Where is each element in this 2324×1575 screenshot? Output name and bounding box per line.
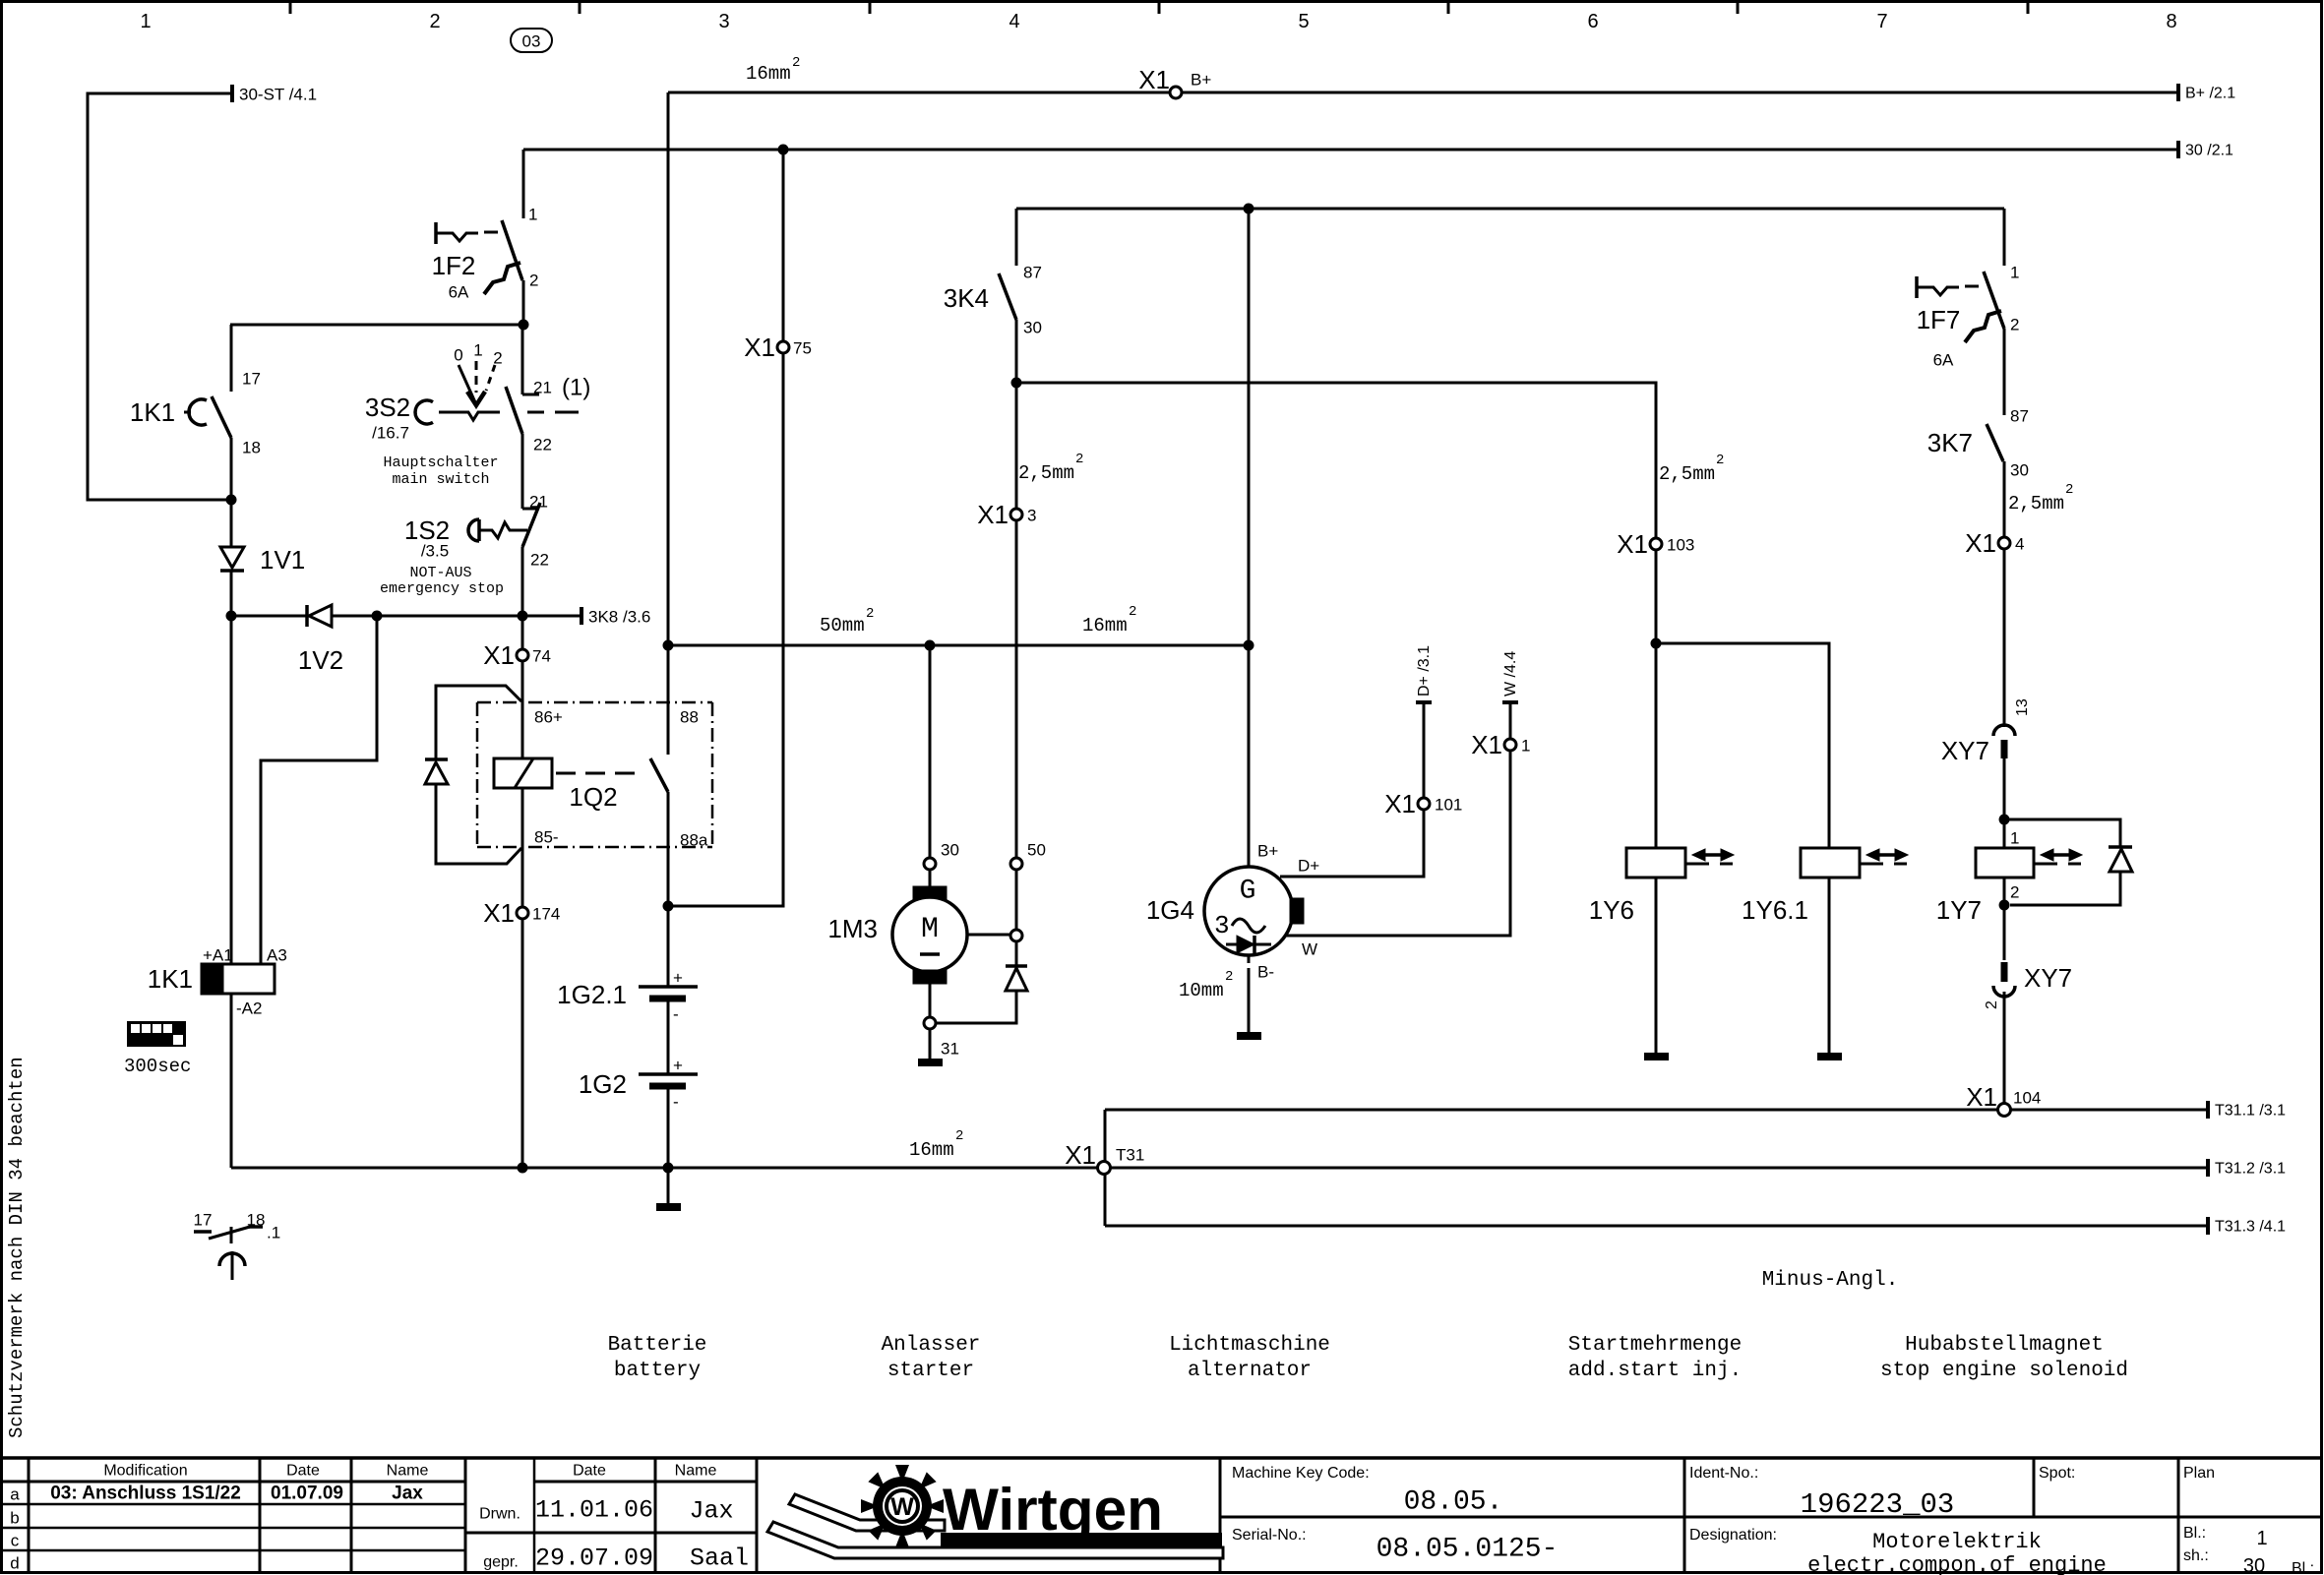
- svg-text:1: 1: [2010, 264, 2019, 282]
- svg-text:+: +: [673, 969, 683, 988]
- svg-text:18: 18: [247, 1211, 266, 1230]
- symbol actuator arrows (1Y7): [2035, 849, 2082, 864]
- wire battery column: [667, 906, 670, 987]
- connector X1:101: [1384, 789, 1462, 818]
- svg-text:XY7: XY7: [1941, 736, 1989, 765]
- net B+ /2.1: [2176, 84, 2180, 101]
- connector X1:74: [483, 640, 551, 670]
- svg-text:+: +: [673, 1057, 683, 1075]
- contact 1Q2 (88-88a): [650, 645, 668, 906]
- svg-text:08.05.: 08.05.: [1404, 1487, 1503, 1518]
- svg-text:196223_03: 196223_03: [1801, 1488, 1955, 1521]
- svg-text:16mm: 16mm: [1082, 615, 1128, 636]
- junction 50mm2 rail / starter 30 column: [925, 640, 936, 651]
- svg-text:Name: Name: [675, 1463, 717, 1480]
- svg-text:XY7: XY7: [2024, 963, 2072, 993]
- svg-text:2: 2: [1075, 452, 1083, 467]
- svg-text:1K1: 1K1: [148, 964, 193, 994]
- wire B- to ground: [1248, 955, 1251, 963]
- svg-text:21: 21: [533, 379, 552, 397]
- svg-text:alternator: alternator: [1188, 1360, 1312, 1382]
- svg-text:30 /2.1: 30 /2.1: [2185, 143, 2233, 159]
- battery 1G2: [639, 1074, 698, 1168]
- svg-text:-: -: [673, 1005, 679, 1024]
- svg-text:2: 2: [493, 349, 502, 368]
- wire starter 50 column: [1015, 383, 1018, 858]
- svg-text:Machine Key Code:: Machine Key Code:: [1232, 1465, 1370, 1482]
- terminal solenoid (1M3 side): [1010, 930, 1022, 941]
- svg-text:Hubabstellmagnet: Hubabstellmagnet: [1905, 1334, 2104, 1357]
- diode 1V1: [220, 500, 244, 616]
- fuse 1F7: [1917, 209, 2004, 415]
- svg-text:b: b: [10, 1509, 19, 1528]
- junction X1:174 column / minus bus: [518, 1163, 528, 1174]
- terminal circle X1:T31: [1098, 1162, 1111, 1175]
- net T31.3 /4.1: [2206, 1217, 2210, 1235]
- junction 3K4 output: [1011, 378, 1022, 389]
- svg-text:G: G: [1240, 877, 1256, 907]
- svg-text:30: 30: [2010, 461, 2029, 480]
- svg-text:101: 101: [1435, 796, 1462, 815]
- wire X1:74 drop: [521, 616, 524, 758]
- svg-text:d: d: [10, 1554, 19, 1573]
- wire B+ column to battery: [667, 92, 670, 645]
- net D+ /3.1: [1416, 700, 1432, 704]
- svg-text:B+: B+: [1257, 842, 1278, 861]
- svg-text:1: 1: [140, 11, 151, 32]
- ground battery minus: [667, 1168, 670, 1203]
- svg-text:2: 2: [2065, 482, 2073, 498]
- contact 1K1 (NO, 17-18): [184, 325, 231, 500]
- svg-text:Jax: Jax: [689, 1497, 733, 1526]
- connector X1:75: [744, 333, 812, 362]
- svg-text:50mm: 50mm: [820, 615, 865, 636]
- solenoid 1Y7: [1976, 848, 2034, 960]
- svg-text:2: 2: [2010, 316, 2019, 334]
- svg-text:1M3: 1M3: [827, 914, 878, 943]
- wire node to 1S2 bottom: [377, 615, 581, 618]
- connector X1:3: [977, 500, 1036, 529]
- diode 1V2: [231, 605, 377, 627]
- junction 1K1/30-ST: [226, 495, 237, 506]
- svg-text:sh.:: sh.:: [2183, 1547, 2209, 1564]
- svg-text:2,5mm: 2,5mm: [2008, 493, 2064, 515]
- svg-text:NOT-AUS: NOT-AUS: [409, 565, 471, 581]
- connector X1:T31: [1065, 1140, 1144, 1170]
- svg-text:emergency stop: emergency stop: [380, 580, 504, 597]
- logo Wirtgen gear emblem: [861, 1465, 944, 1547]
- svg-text:88a: 88a: [680, 831, 708, 850]
- svg-text:Serial-No.:: Serial-No.:: [1232, 1527, 1307, 1544]
- svg-text:2: 2: [792, 55, 800, 71]
- svg-text:1V1: 1V1: [260, 545, 305, 575]
- svg-text:3: 3: [718, 11, 729, 32]
- svg-text:8: 8: [2166, 11, 2176, 32]
- wire XY7 bottom to X1:104: [2003, 992, 2006, 1104]
- svg-text:1V2: 1V2: [298, 645, 343, 675]
- junction 1Y7 pin2 / diode loop: [1999, 900, 2010, 911]
- wire B+ bus: [668, 91, 2178, 94]
- svg-text:13: 13: [2014, 698, 2031, 716]
- symbol rectifier diode: [1226, 936, 1271, 953]
- svg-text:1: 1: [2010, 829, 2019, 848]
- junction battery minus / minus bus: [663, 1163, 674, 1174]
- svg-text:Date: Date: [573, 1463, 606, 1480]
- svg-text:T31.3 /4.1: T31.3 /4.1: [2215, 1219, 2286, 1236]
- link 1Q2 coil to contact (dashed): [556, 772, 642, 775]
- svg-text:T31.2 /3.1: T31.2 /3.1: [2215, 1161, 2286, 1178]
- svg-text:1F2: 1F2: [432, 251, 476, 280]
- svg-text:Batterie: Batterie: [608, 1334, 707, 1357]
- junction on 30 bus at X1:75 column: [778, 145, 789, 155]
- svg-text:74: 74: [532, 647, 551, 666]
- boundary 1Q2 (dash-dot): [477, 702, 712, 847]
- wire D+ lead: [1280, 702, 1424, 877]
- net 30 /2.1: [2176, 141, 2180, 158]
- junction 1V2 / 1K1 A3 branch: [372, 611, 383, 622]
- diode (1M3 suppressor): [936, 941, 1027, 1023]
- svg-text:Date: Date: [286, 1463, 320, 1480]
- svg-text:1Y7: 1Y7: [1936, 895, 1982, 925]
- terminal 50 (1M3): [1010, 858, 1022, 870]
- svg-text:Saal: Saal: [690, 1545, 749, 1573]
- svg-text:17: 17: [194, 1211, 213, 1230]
- net 30-ST /4.1: [230, 85, 234, 102]
- connector X1:4: [1965, 528, 2024, 558]
- net T31.1 /3.1: [2206, 1101, 2210, 1119]
- connector X1:174: [483, 898, 560, 928]
- switch 1S2 emergency stop: [468, 503, 540, 616]
- wire alternator B+ column: [1248, 209, 1251, 867]
- svg-text:2: 2: [1716, 453, 1724, 468]
- logo Wirtgen swoosh: [767, 1494, 1223, 1558]
- svg-text:W /4.4: W /4.4: [1502, 651, 1519, 697]
- svg-text:X1: X1: [1471, 730, 1502, 759]
- title block grid: [2, 1458, 2322, 1573]
- svg-text:85-: 85-: [534, 828, 559, 847]
- svg-text:4: 4: [1009, 11, 1019, 32]
- svg-text:Anlasser: Anlasser: [882, 1334, 981, 1357]
- svg-text:c: c: [11, 1532, 20, 1550]
- logo Wirtgen underline: [941, 1533, 1222, 1547]
- relay 1Q2 battery switch housing: [436, 686, 521, 864]
- svg-text:16mm: 16mm: [909, 1139, 954, 1161]
- diode (1Y7 suppressor) loop: [2004, 819, 2132, 905]
- svg-text:6A: 6A: [449, 283, 469, 302]
- svg-text:11.01.06: 11.01.06: [535, 1496, 653, 1525]
- svg-text:1Y6.1: 1Y6.1: [1742, 895, 1808, 925]
- svg-text:2: 2: [429, 11, 440, 32]
- svg-text:X1: X1: [1384, 789, 1416, 818]
- svg-text:W: W: [890, 1493, 914, 1521]
- svg-text:2: 2: [955, 1128, 963, 1144]
- svg-text:2,5mm: 2,5mm: [1018, 462, 1074, 484]
- svg-text:86+: 86+: [534, 708, 563, 727]
- svg-text:08.05.0125-: 08.05.0125-: [1376, 1535, 1559, 1565]
- wire 50mm2/16mm2 rail: [668, 644, 1249, 647]
- solenoid 1Y6.1: [1801, 848, 1860, 1053]
- svg-text:1Y6: 1Y6: [1589, 895, 1634, 925]
- svg-text:Drwn.: Drwn.: [479, 1506, 520, 1523]
- contact 1K1 mirror (17-18 .1): [194, 1227, 263, 1280]
- svg-text:B-: B-: [1257, 963, 1274, 982]
- wire T31.2 line: [1110, 1167, 2208, 1170]
- wire starter 30 column: [929, 645, 932, 858]
- ground 1G4: [1237, 1032, 1261, 1040]
- wire X1:174 to minus bus: [521, 919, 524, 1168]
- battery 1G2.1: [639, 987, 698, 1074]
- wire 30-ST feeder: [88, 93, 232, 500]
- svg-text:Hauptschalter: Hauptschalter: [383, 454, 498, 471]
- svg-text:1G2.1: 1G2.1: [557, 980, 627, 1009]
- wire 1F2 output to 1K1 contact: [230, 324, 523, 327]
- svg-text:30: 30: [941, 841, 959, 860]
- svg-text:gepr.: gepr.: [483, 1554, 519, 1571]
- svg-text:X1: X1: [744, 333, 775, 362]
- wire 50 to solenoid terminal: [1015, 870, 1018, 930]
- svg-text:T31.1 /3.1: T31.1 /3.1: [2215, 1103, 2286, 1120]
- svg-text:5: 5: [1298, 11, 1309, 32]
- wire 87 rail (row 212): [1016, 208, 2004, 211]
- svg-text:stop engine solenoid: stop engine solenoid: [1880, 1360, 2128, 1382]
- svg-text:7: 7: [1876, 11, 1887, 32]
- sheet badge 03: [511, 29, 552, 52]
- wire minus bus 16mm2: [231, 1167, 1098, 1170]
- svg-text:2: 2: [1225, 969, 1233, 985]
- motor 1M3 starter: [892, 870, 967, 1017]
- net 3K8 /3.6: [580, 607, 583, 625]
- svg-text:75: 75: [793, 339, 812, 358]
- svg-text:1: 1: [2256, 1528, 2267, 1549]
- svg-text:Name: Name: [387, 1463, 429, 1480]
- svg-text:main switch: main switch: [392, 471, 489, 488]
- switch 3S2 main switch: [415, 325, 579, 509]
- svg-text:30: 30: [2243, 1555, 2265, 1575]
- svg-text:X1: X1: [483, 640, 515, 670]
- connector X1:B+: [1138, 65, 1211, 98]
- wire W lead: [1285, 702, 1510, 936]
- wire T31.1 line: [1105, 1109, 2208, 1112]
- connector X1:103: [1617, 529, 1694, 559]
- svg-text:50: 50: [1027, 841, 1046, 860]
- svg-text:B+ /2.1: B+ /2.1: [2185, 86, 2235, 102]
- wire X1:75 column: [668, 150, 783, 906]
- svg-text:W: W: [1302, 940, 1317, 959]
- svg-text:2: 2: [529, 272, 538, 290]
- connector XY7 bottom: [1993, 905, 2015, 997]
- svg-text:1: 1: [1521, 737, 1530, 756]
- svg-text:-A2: -A2: [236, 1000, 262, 1018]
- svg-text:X1: X1: [1617, 529, 1648, 559]
- svg-text:2: 2: [1984, 1000, 2000, 1009]
- svg-text:2: 2: [1129, 604, 1136, 620]
- relay contact 3K4: [999, 209, 1016, 383]
- svg-text:T31: T31: [1116, 1146, 1144, 1165]
- svg-text:Plan: Plan: [2183, 1465, 2215, 1482]
- column numbers 1-8: [140, 11, 2176, 32]
- svg-text:/3.5: /3.5: [421, 542, 449, 561]
- connector X1:104: [1966, 1082, 2041, 1117]
- junction 1Y7 pin1 / diode loop: [1999, 815, 2010, 825]
- svg-text:6A: 6A: [1933, 351, 1954, 370]
- ground 1M3: [929, 1029, 932, 1059]
- ground 1Y6.1: [1817, 1053, 1842, 1060]
- svg-text:22: 22: [530, 551, 549, 570]
- svg-text:D+: D+: [1298, 857, 1319, 876]
- svg-text:-: -: [673, 1093, 679, 1112]
- svg-text:3K7: 3K7: [1927, 428, 1973, 457]
- alternator 1G4: [1204, 867, 1304, 955]
- svg-text:3K8 /3.6: 3K8 /3.6: [588, 608, 650, 627]
- svg-text:30: 30: [1023, 319, 1042, 337]
- net T31.2 /3.1: [2206, 1159, 2210, 1177]
- svg-text:103: 103: [1667, 536, 1694, 555]
- svg-text:3S2: 3S2: [365, 393, 410, 422]
- svg-text:Spot:: Spot:: [2039, 1465, 2075, 1482]
- svg-text:Designation:: Designation:: [1689, 1527, 1777, 1544]
- junction 88a / X1:75 return: [663, 901, 674, 912]
- svg-text:03: Anschluss 1S1/22: 03: Anschluss 1S1/22: [50, 1484, 241, 1504]
- svg-text:/16.7: /16.7: [372, 424, 409, 443]
- svg-text:Minus-Angl.: Minus-Angl.: [1762, 1269, 1899, 1292]
- svg-text:X1: X1: [1965, 528, 1996, 558]
- ground 1Y6: [1644, 1053, 1669, 1060]
- svg-text:A3: A3: [267, 946, 287, 965]
- junction 1V1 bottom: [226, 611, 237, 622]
- svg-text:17: 17: [242, 370, 261, 389]
- svg-text:electr.compon.of engine: electr.compon.of engine: [1807, 1553, 2107, 1575]
- svg-text:2: 2: [2010, 883, 2019, 902]
- junction 1F2 output: [519, 320, 529, 331]
- svg-text:03: 03: [522, 32, 541, 51]
- wire XY7 to 1Y7: [2003, 758, 2006, 848]
- svg-text:300sec: 300sec: [124, 1056, 191, 1077]
- svg-text:battery: battery: [614, 1360, 701, 1382]
- wire rail to 1Y6.1: [1656, 643, 1829, 848]
- svg-text:Bl.:: Bl.:: [2292, 1560, 2314, 1575]
- wire coil 85- drop to X1:174: [521, 788, 524, 907]
- wire 30 bus: [523, 149, 2178, 151]
- svg-text:.1: .1: [267, 1224, 280, 1242]
- junction 87 rail / alternator B+ column: [1244, 204, 1254, 214]
- svg-text:3: 3: [1214, 911, 1230, 940]
- svg-text:Ident-No.:: Ident-No.:: [1689, 1465, 1758, 1482]
- svg-text:X1: X1: [1138, 65, 1170, 94]
- coil 1Q2: [494, 758, 552, 788]
- wire motor to solenoid terminal: [967, 934, 1010, 937]
- svg-text:2: 2: [866, 606, 874, 622]
- svg-text:X1: X1: [483, 898, 515, 928]
- svg-text:Bl.:: Bl.:: [2183, 1525, 2206, 1542]
- svg-text:Modification: Modification: [103, 1463, 187, 1480]
- timer setting block 300sec: [127, 1021, 186, 1047]
- symbol actuator arrows (1Y6.1): [1861, 849, 1908, 864]
- svg-text:3K4: 3K4: [944, 283, 989, 313]
- svg-text:1S2: 1S2: [404, 515, 450, 545]
- svg-text:X1: X1: [977, 500, 1009, 529]
- relay contact 3K7: [1987, 424, 2004, 537]
- svg-text:Jax: Jax: [392, 1484, 423, 1504]
- junction alternator column / 16mm2 rail: [1244, 640, 1254, 651]
- svg-text:1G2: 1G2: [579, 1069, 627, 1099]
- svg-text:B+: B+: [1191, 71, 1211, 90]
- svg-text:29.07.09: 29.07.09: [535, 1545, 653, 1573]
- svg-text:31: 31: [941, 1040, 959, 1059]
- svg-text:starter: starter: [887, 1360, 974, 1382]
- junction 1S2 bottom: [518, 611, 528, 622]
- svg-text:X1: X1: [1065, 1140, 1096, 1170]
- terminal 30 (1M3): [924, 858, 936, 870]
- svg-text:18: 18: [242, 439, 261, 457]
- svg-text:22: 22: [533, 436, 552, 454]
- svg-text:87: 87: [2010, 407, 2029, 426]
- fuse 1F2: [436, 150, 523, 325]
- svg-text:88: 88: [680, 708, 699, 727]
- svg-text:Schutzvermerk nach DIN 34 beac: Schutzvermerk nach DIN 34 beachten: [6, 1057, 28, 1438]
- svg-text:add.start inj.: add.start inj.: [1568, 1360, 1742, 1382]
- svg-text:01.07.09: 01.07.09: [271, 1484, 343, 1504]
- svg-text:a: a: [10, 1485, 20, 1504]
- svg-text:1Q2: 1Q2: [569, 782, 617, 812]
- wire T31.3 line: [1105, 1225, 2208, 1228]
- svg-text:+A1: +A1: [203, 946, 233, 965]
- svg-text:6: 6: [1587, 11, 1598, 32]
- junction 1Y6 column / 1Y6.1 rail: [1651, 638, 1662, 649]
- svg-text:1F7: 1F7: [1917, 305, 1961, 334]
- svg-text:Wirtgen: Wirtgen: [943, 1477, 1163, 1543]
- svg-text:4: 4: [2015, 535, 2024, 554]
- symbol AC wave: [1232, 919, 1265, 933]
- svg-text:2,5mm: 2,5mm: [1659, 463, 1715, 485]
- svg-text:0: 0: [454, 346, 462, 365]
- coil 1K1 (timer relay): [202, 616, 275, 1168]
- svg-text:1K1: 1K1: [130, 397, 175, 427]
- solenoid 1Y6: [1626, 848, 1685, 1053]
- svg-text:10mm: 10mm: [1179, 980, 1224, 1001]
- wire X1:4 to XY7: [2003, 549, 2006, 727]
- svg-text:1: 1: [528, 206, 537, 224]
- svg-text:21: 21: [529, 493, 548, 512]
- svg-text:16mm: 16mm: [746, 63, 791, 85]
- svg-text:D+ /3.1: D+ /3.1: [1416, 645, 1433, 697]
- svg-text:1G4: 1G4: [1146, 895, 1194, 925]
- diode (1Q2 suppressor): [425, 759, 448, 784]
- svg-text:X1: X1: [1966, 1082, 1997, 1112]
- symbol actuator arrows (1Y6): [1686, 849, 1734, 864]
- svg-text:104: 104: [2013, 1089, 2041, 1108]
- svg-text:87: 87: [1023, 264, 1042, 282]
- wire T31 riser: [1104, 1110, 1107, 1226]
- wire 3K4 output rail to 1Y6 column: [1016, 383, 1656, 848]
- connector XY7 top: [1993, 725, 2015, 758]
- svg-text:30-ST /4.1: 30-ST /4.1: [239, 86, 317, 104]
- svg-text:Motorelektrik: Motorelektrik: [1872, 1530, 2042, 1554]
- wire A3 branch: [261, 616, 377, 964]
- connector X1:1: [1471, 730, 1530, 759]
- svg-text:1: 1: [473, 341, 482, 360]
- svg-text:(1): (1): [562, 375, 590, 401]
- junction B+ column / 50mm2 rail: [663, 640, 674, 651]
- svg-text:174: 174: [532, 905, 560, 924]
- svg-text:M: M: [921, 913, 939, 946]
- net W /4.4: [1502, 700, 1518, 704]
- svg-text:Startmehrmenge: Startmehrmenge: [1568, 1334, 1742, 1357]
- svg-text:3: 3: [1027, 507, 1036, 525]
- terminal 31 (1M3): [924, 1017, 936, 1029]
- svg-text:Lichtmaschine: Lichtmaschine: [1169, 1334, 1330, 1357]
